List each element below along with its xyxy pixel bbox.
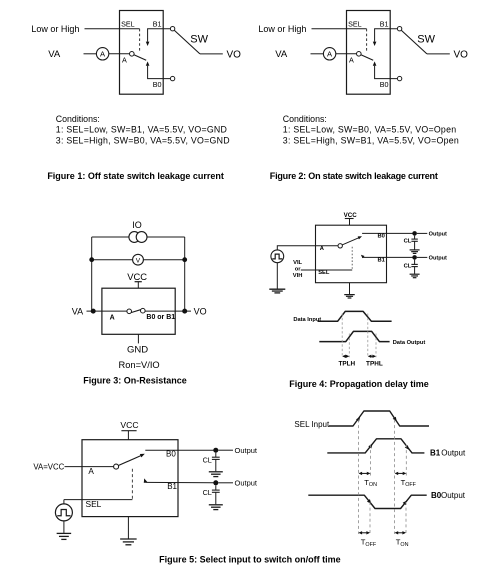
switch box [120,11,164,95]
caption figure 3 [83,375,187,385]
data output waveform [319,331,389,341]
dashed marker B0 rise [405,502,407,534]
svg-text:A: A [320,246,325,252]
svg-text:VIL: VIL [293,260,302,266]
wire SEL control dashed [131,469,133,500]
label B0 [380,80,389,89]
svg-text:Data Input: Data Input [293,317,321,323]
label Ron=V/IO [119,360,160,370]
node VA=VCC [33,463,64,472]
label Output B1 [235,478,258,487]
svg-text:VCC: VCC [120,420,138,430]
switch blade [131,310,140,313]
svg-text:3: SEL=High, SW=B1, VA=5.5V, V: 3: SEL=High, SW=B1, VA=5.5V, VO=Open [283,136,459,146]
ammeter A1 [96,48,108,60]
switch contact B [141,308,146,313]
junction dot left [89,257,94,262]
svg-text:ON: ON [369,482,377,488]
dashed marker output rise [348,334,350,358]
capacitor ground B1 [209,505,223,510]
output node B1 dot [412,255,417,260]
wire switch to VO [145,310,191,312]
label A [110,315,115,322]
current source IO [92,232,185,243]
wire left rail [91,237,93,311]
capacitor ground B0 [410,250,420,254]
svg-text:Figure 4: Propagation delay ti: Figure 4: Propagation delay time [289,379,429,389]
junction dot VA rail [91,309,96,314]
node VO [194,307,207,317]
B1 output waveform [327,439,424,453]
switch contact A [127,309,132,314]
pulse generator G2 [55,500,72,521]
label IO [132,220,142,230]
label B1 [380,19,389,28]
svg-text:A: A [349,56,354,65]
switch blade SW external [174,30,222,54]
pulse generator G1 [271,250,284,263]
svg-text:Output: Output [441,449,466,458]
B0 output waveform [308,495,426,508]
label CL B0 [404,238,412,244]
data input waveform [318,311,392,321]
wire to output B1 [218,482,233,484]
capacitor CL B1 [411,260,417,274]
label B1 [167,482,177,491]
label TPHL [366,360,383,367]
arrow TOFF B1 [395,472,407,475]
capacitor CL B0 [411,236,417,250]
box ground [120,517,136,545]
label TOFF B0 [361,537,377,547]
junction dot right [182,257,187,262]
wire throw B1 with down arrow [146,29,171,46]
label TOFF B1 [401,478,417,488]
label VCC [344,212,358,219]
label A [122,56,127,65]
svg-text:VA=VCC: VA=VCC [33,463,64,472]
arrow TON B0 [395,531,406,534]
label SEL [348,19,362,28]
label A [320,246,325,252]
svg-text:Data Output: Data Output [393,340,426,346]
svg-text:A: A [88,467,94,476]
label B0 [378,234,385,240]
arrow TON B1 [359,472,371,475]
svg-text:B1: B1 [378,258,386,264]
svg-text:A: A [110,315,115,322]
label B0 Output [431,491,466,500]
node Low or High [31,24,79,34]
label A [88,467,94,476]
VCC stub [345,219,354,226]
svg-text:B1: B1 [167,482,177,491]
wire right rail [184,237,186,311]
ammeter A1 [323,48,335,60]
dashed marker output fall [375,334,377,358]
svg-text:Figure 3: On-Resistance: Figure 3: On-Resistance [83,375,187,385]
svg-text:TPHL: TPHL [366,360,383,367]
dashed marker B1 rise [369,445,371,478]
output node B0 dot [412,231,417,236]
label Output B1 [429,256,447,262]
wire VA to node A [65,466,114,468]
svg-text:VCC: VCC [127,271,147,282]
label TON B0 [396,537,409,547]
wire to output B0 [417,232,427,234]
SEL input waveform [329,411,429,426]
wire SEL input [301,269,352,271]
svg-text:CL: CL [404,264,412,270]
wire B0 to output node [362,232,412,234]
capacitor CL B0 [212,453,220,472]
wire VA to switch [87,310,128,312]
label SW [190,34,208,46]
svg-text:Ron=V/IO: Ron=V/IO [119,360,160,370]
VCC stub [121,431,136,440]
svg-text:Figure 1: Off state switch lea: Figure 1: Off state switch leakage curre… [47,171,224,181]
switch box U3 [102,288,175,334]
label CL B1 [404,264,412,270]
conditions text [283,114,459,146]
svg-text:1: SEL=Low, SW=B1, VA=5.5V, VO: 1: SEL=Low, SW=B1, VA=5.5V, VO=GND [56,124,227,134]
svg-text:TPLH: TPLH [338,360,355,367]
wire Low/High to SEL pin [312,28,367,30]
svg-text:B0: B0 [166,450,176,459]
svg-text:IO: IO [132,220,142,230]
switch box U4 [316,225,387,283]
label B0 [166,450,176,459]
capacitor ground B1 [410,274,420,278]
svg-text:B1: B1 [380,19,389,28]
caption figure 4 [289,379,429,389]
wire throw B0 with up arrow [146,61,171,78]
svg-text:SEL: SEL [121,19,135,28]
caption [47,171,224,181]
conditions text [56,114,230,146]
svg-text:Output: Output [441,491,466,500]
svg-text:VO: VO [194,307,207,317]
svg-text:A: A [122,56,127,65]
label TON B1 [364,478,377,488]
wire B1 to output node [145,481,213,483]
label Output B0 [235,446,258,455]
wire to output B1 [417,256,427,258]
svg-text:CL: CL [203,488,212,497]
svg-text:OFF: OFF [405,482,416,488]
wire generator to node A [277,246,338,250]
generator ground [269,263,285,293]
svg-text:SEL: SEL [348,19,362,28]
svg-text:VA: VA [72,307,83,317]
switch arm [361,55,373,60]
switch box U5 [82,440,178,517]
svg-text:CL: CL [404,238,412,244]
box ground [344,283,355,298]
generator ground [57,521,72,540]
wire SEL dashed control line [139,29,141,53]
label SEL Input [294,420,330,429]
wire VA to ammeter [84,53,97,55]
caption figure 5 [159,555,341,565]
label A [349,56,354,65]
capacitor CL B1 [212,485,220,504]
wire throw B0 with up arrow [373,61,398,78]
label Output B0 [429,232,447,238]
switch box [347,11,391,95]
label Data Output [393,340,426,346]
svg-text:Output: Output [429,232,447,238]
svg-text:3: SEL=High, SW=B0, VA=5.5V, V: 3: SEL=High, SW=B0, VA=5.5V, VO=GND [56,136,230,146]
dashed marker SEL rise [358,420,360,535]
svg-text:VO: VO [227,49,242,60]
wire SEL control dashed [351,247,353,270]
label B0 [153,80,162,89]
arrow at B1 throw [144,478,147,483]
svg-text:SEL Input: SEL Input [294,420,330,429]
label B1 [378,258,386,264]
arrow TPHL [368,355,376,358]
label SEL [86,499,102,509]
contact circle B0 [170,76,174,80]
svg-text:CL: CL [203,455,212,464]
contact circle B1 [397,27,401,31]
svg-text:B0 or B1: B0 or B1 [146,314,175,321]
svg-text:or: or [295,267,302,273]
svg-text:SW: SW [190,34,208,46]
label CL B1 [203,488,212,497]
svg-text:OFF: OFF [365,542,376,548]
wire ammeter to node A [336,53,357,55]
wire ammeter to node A [109,53,130,55]
capacitor ground B0 [209,472,223,477]
svg-text:VO: VO [454,49,469,60]
label TPLH [338,360,355,367]
switch pole contact A [130,52,135,57]
svg-text:Low or High: Low or High [258,24,306,34]
label B1 [153,19,162,28]
node VA [72,307,83,317]
node VA [48,49,61,60]
node VO [454,49,469,60]
svg-text:ON: ON [400,542,408,548]
contact circle B0 [397,76,401,80]
svg-text:Output: Output [235,478,258,487]
label B1 Output [430,449,466,458]
wire B0 to output node [145,449,213,451]
svg-text:B1: B1 [430,449,441,458]
switch pole contact A [357,52,362,57]
VCC stub [135,282,142,289]
arrow at B1 throw [361,255,365,259]
label GND [127,345,148,356]
svg-text:GND: GND [127,345,148,356]
output node B1 dot [213,480,218,485]
svg-text:SEL: SEL [86,499,102,509]
label VCC [120,420,138,430]
voltmeter V1 [92,254,185,265]
GND stub [137,334,139,343]
junction dot VO rail [182,309,187,314]
caption [270,171,438,181]
dashed marker B0 fall [369,502,371,534]
wire B1 to output node [362,256,412,258]
wire Low/High to SEL pin [85,28,140,30]
svg-text:Output: Output [429,256,447,262]
wire throw B1 with down arrow [373,29,398,46]
label VIL or VIH [293,260,303,279]
svg-text:B1: B1 [153,19,162,28]
switch arm with arrow to B0 [342,236,362,245]
label VCC [127,271,147,282]
svg-text:Conditions:: Conditions: [56,114,100,124]
svg-text:B0: B0 [153,80,162,89]
dashed marker input fall [367,314,369,358]
node Low or High [258,24,306,34]
node VO [227,49,242,60]
wire SEL dashed control line [366,29,368,53]
switch contact A [114,464,119,469]
wire SEL input [64,499,132,501]
svg-text:B0: B0 [380,80,389,89]
dashed marker SEL fall [394,420,396,535]
svg-text:VIH: VIH [293,273,303,279]
switch contact A [338,244,342,248]
svg-text:B0: B0 [378,234,385,240]
wire to output B0 [218,449,233,451]
arrow TOFF B0 [359,531,371,534]
label CL B0 [203,455,212,464]
svg-text:V: V [136,257,141,264]
wire VA to ammeter [311,53,324,55]
svg-text:Figure 2: On state switch leak: Figure 2: On state switch leakage curren… [270,171,438,181]
switch arm [134,55,146,60]
label SEL [121,19,135,28]
svg-text:Low or High: Low or High [31,24,79,34]
arrow TPLH [342,355,349,358]
label SW [417,34,435,46]
svg-text:Figure 5: Select input to swit: Figure 5: Select input to switch on/off … [159,555,341,565]
svg-text:1: SEL=Low, SW=B0, VA=5.5V, VO: 1: SEL=Low, SW=B0, VA=5.5V, VO=Open [283,124,457,134]
svg-text:VA: VA [275,49,288,60]
contact circle B1 [170,27,174,31]
label SEL [318,270,330,276]
switch arm with arrow to B0 [118,454,144,466]
svg-text:Output: Output [235,446,258,455]
label Data Input [293,317,321,323]
output node B0 dot [213,448,218,453]
svg-text:Conditions:: Conditions: [283,114,327,124]
dashed marker input rise [341,314,343,358]
switch blade SW external [401,30,449,54]
node VA [275,49,288,60]
svg-text:VA: VA [48,49,61,60]
svg-text:SEL: SEL [318,270,330,276]
dashed marker B1 fall [405,445,407,478]
svg-text:SW: SW [417,34,435,46]
label B0 or B1 [146,314,175,321]
